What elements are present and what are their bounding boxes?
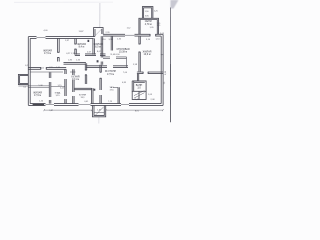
- wall: outer top-right segment (double): [103, 34, 163, 36]
- svg-text:8,4 м: 8,4 м: [79, 46, 85, 49]
- page edge vertical line lower: [169, 64, 171, 122]
- bottom-left dark wall fill: [33, 104, 45, 106]
- dimension line bottom: [44, 109, 164, 111]
- interior wall v D/E: [111, 36, 112, 50]
- vestibule top-center box: [94, 28, 104, 37]
- interior wall h right-of-center: [103, 57, 127, 59]
- bottom porch inner line: [94, 112, 104, 114]
- svg-text:11,48 0,90: 11,48 0,90: [110, 54, 120, 56]
- wall: outer right (double): [161, 34, 163, 105]
- top right corner smudge: [171, 0, 179, 9]
- fold line top: [99, 3, 101, 28]
- interior wall v pantry left: [65, 69, 66, 103]
- right wall window tick: [161, 54, 164, 56]
- bottom porch diagonal: [95, 107, 103, 115]
- interior wall h right-bottom short: [113, 87, 118, 89]
- wall: outer left (double): [28, 37, 30, 106]
- top scan streak: [14, 1, 113, 3]
- bath lower box: [132, 91, 146, 99]
- interior wall v kitchen upper: [85, 63, 86, 84]
- interior wall v A/B: [58, 38, 60, 61]
- svg-text:1,9: 1,9: [164, 82, 166, 85]
- interior wall h left: [28, 68, 66, 70]
- interior wall h right: [137, 72, 163, 74]
- svg-text:17,9 м: 17,9 м: [44, 52, 51, 55]
- annex wide box (double): [139, 18, 159, 34]
- interior wall v hall left: [93, 38, 95, 54]
- interior wall h left corridor: [30, 71, 75, 73]
- interior wall v kitchen left: [73, 69, 74, 103]
- interior wall v center-right: [100, 65, 101, 104]
- svg-text:13,87: 13,87: [78, 31, 84, 33]
- svg-text:10,9 м: 10,9 м: [144, 53, 151, 56]
- svg-text:17,5 м: 17,5 м: [107, 73, 114, 76]
- fold line bottom: [98, 117, 100, 124]
- interior wall v hall right: [101, 36, 103, 55]
- annex narrow box (double): [142, 7, 153, 19]
- window bottom 1 (thin sill): [79, 104, 91, 106]
- bottom porch box: [92, 105, 105, 116]
- interior wall h kitchen bottom: [74, 88, 92, 89]
- window bottom 2 (thin sill): [121, 104, 129, 106]
- interior wall h bottom-left band: [28, 86, 65, 88]
- interior wall v bath-to-hall: [137, 74, 138, 81]
- page edge vertical line upper: [169, 8, 171, 65]
- svg-text:17,9 м: 17,9 м: [34, 94, 41, 97]
- window top-right (thin sill): [125, 34, 135, 36]
- interior wall h center: [75, 54, 106, 56]
- interior wall v hall extension: [101, 55, 103, 65]
- svg-text:4,70 м: 4,70 м: [145, 23, 152, 26]
- door jamb ticks: [40, 34, 156, 79]
- bath stairs diagonals: [134, 91, 145, 99]
- wall: outer bottom (double): [28, 104, 163, 106]
- porch left box: [18, 74, 28, 84]
- vestibule diagonal: [95, 29, 102, 37]
- stove mark 1: [88, 40, 90, 42]
- svg-text:6,27 1,13: 6,27 1,13: [66, 53, 75, 55]
- interior wall v center-left: [49, 72, 51, 103]
- window top-left (thin sill): [37, 37, 46, 39]
- interior wall h kitchen top right: [86, 66, 128, 68]
- svg-text:4,24: 4,24: [60, 87, 64, 89]
- interior wall v center: [92, 88, 93, 104]
- interior wall v E/F: [139, 36, 140, 72]
- wall: outer top-left segment (double): [28, 37, 95, 39]
- stove mark 2: [97, 60, 99, 62]
- interior wall v B/C: [75, 38, 77, 54]
- interior wall h kitchen top left: [64, 63, 86, 65]
- page background: [0, 0, 190, 126]
- interior wall v right-bottom: [118, 87, 119, 103]
- window bottom 0 (thin sill): [46, 104, 55, 106]
- stove mark 3: [94, 89, 96, 91]
- svg-text:8,0 м: 8,0 м: [95, 46, 101, 49]
- interior wall v stolovaya right: [126, 57, 128, 68]
- svg-text:13,1 м: 13,1 м: [72, 78, 79, 81]
- svg-text:10,38 м: 10,38 м: [119, 50, 128, 53]
- porch left step line: [18, 85, 28, 87]
- bath box outer: [132, 81, 146, 91]
